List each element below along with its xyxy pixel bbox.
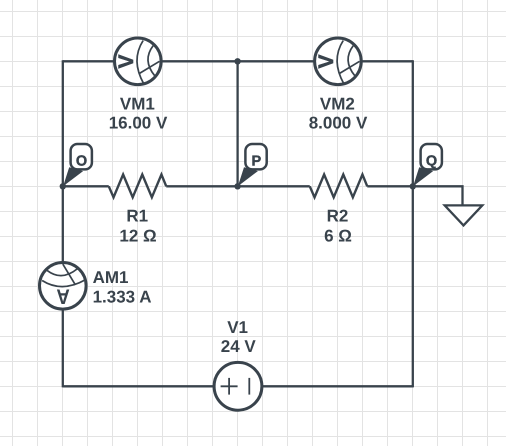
node P <box>234 144 266 190</box>
svg-text:VM2: VM2 <box>320 94 355 113</box>
svg-text:R2: R2 <box>327 207 349 226</box>
svg-text:A: A <box>56 285 69 308</box>
node O <box>60 144 92 190</box>
svg-text:P: P <box>251 153 261 169</box>
wire middle O to R1 with resistor body replaced below <box>63 185 109 187</box>
ammeter AM1 <box>40 263 87 310</box>
voltmeter VM2 <box>315 38 362 85</box>
wire bottom <box>63 385 413 387</box>
voltmeter VM1 <box>115 38 162 85</box>
svg-text:Q: Q <box>426 153 437 169</box>
voltage source V1 <box>214 362 262 410</box>
svg-text:V: V <box>315 54 338 68</box>
wire left vertical <box>62 60 64 387</box>
wire from node Q to ground <box>413 186 463 205</box>
svg-text:AM1: AM1 <box>93 268 129 287</box>
resistor R2 <box>310 175 368 198</box>
svg-text:24 V: 24 V <box>221 337 257 356</box>
wire middle P to R2 <box>238 185 310 187</box>
svg-text:6 Ω: 6 Ω <box>324 227 352 246</box>
svg-text:16.00 V: 16.00 V <box>109 114 168 133</box>
node Q <box>410 144 442 190</box>
wire middle vertical at node P <box>236 61 238 186</box>
wire right vertical <box>412 60 414 387</box>
junction top at P branch <box>234 58 240 64</box>
svg-text:12 Ω: 12 Ω <box>119 227 156 246</box>
svg-text:1.333 A: 1.333 A <box>93 287 152 306</box>
ground <box>445 205 483 225</box>
svg-text:V1: V1 <box>227 318 248 337</box>
svg-text:V: V <box>115 54 138 68</box>
svg-text:8.000 V: 8.000 V <box>309 114 368 133</box>
svg-text:R1: R1 <box>126 207 148 226</box>
svg-text:O: O <box>76 153 87 169</box>
svg-text:VM1: VM1 <box>120 94 155 113</box>
wire top from node O corner to right corner <box>63 60 413 62</box>
resistor R1 <box>109 175 167 198</box>
wire middle R2 to Q <box>367 185 413 187</box>
wire middle R1 to P <box>166 185 237 187</box>
